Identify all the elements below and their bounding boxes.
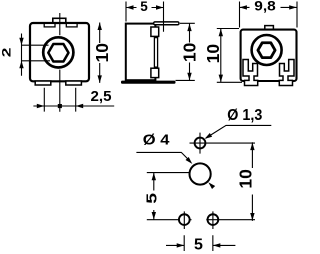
svg-text:Ø 4: Ø 4: [143, 133, 170, 149]
svg-text:10: 10: [236, 169, 256, 189]
svg-text:5: 5: [140, 0, 148, 14]
svg-text:5: 5: [194, 236, 203, 253]
svg-text:10: 10: [203, 44, 223, 64]
svg-text:2,5: 2,5: [91, 88, 112, 105]
svg-text:10: 10: [179, 42, 199, 62]
svg-text:10: 10: [92, 43, 112, 63]
svg-text:9,8: 9,8: [254, 0, 276, 14]
svg-text:2: 2: [0, 48, 14, 58]
svg-text:Ø 1,3: Ø 1,3: [227, 107, 262, 124]
svg-text:5: 5: [143, 193, 160, 204]
